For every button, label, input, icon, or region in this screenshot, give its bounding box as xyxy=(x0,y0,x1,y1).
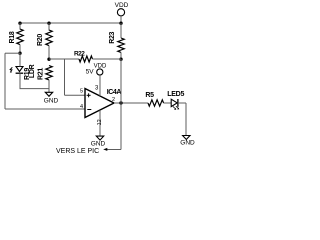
junction dot VDD rail xyxy=(119,22,122,25)
svg-text:R22: R22 xyxy=(74,51,85,58)
power net 5V VDD (op-amp supply) xyxy=(86,63,107,75)
junction dot R22/R23 node xyxy=(119,58,122,61)
wire R23 bottom stub xyxy=(120,52,122,59)
wire R5 to LED5 xyxy=(164,102,172,104)
wire R18 top stub xyxy=(19,23,21,30)
svg-text:2: 2 xyxy=(112,97,115,103)
arrow to PIC xyxy=(103,148,107,151)
svg-text:GND: GND xyxy=(91,141,106,148)
wire LED5 to corner xyxy=(178,102,186,104)
wire noninverting horizontal to op-amp xyxy=(65,94,86,96)
svg-text:5V: 5V xyxy=(86,68,95,75)
ground GND (below R21) xyxy=(44,92,59,104)
wire LDR bottom stub xyxy=(19,73,21,88)
junction dot output node xyxy=(119,101,122,104)
resistor R18 xyxy=(9,29,23,45)
svg-text:R18: R18 xyxy=(9,31,16,43)
wire noninverting tap vertical xyxy=(64,59,66,95)
junction dot R18 top xyxy=(18,22,21,25)
svg-text:4: 4 xyxy=(80,104,83,110)
resistor R21 xyxy=(37,66,52,80)
ground GND (LED) xyxy=(180,136,195,147)
wire R22 right segment xyxy=(93,58,122,60)
wire left rail vertical xyxy=(4,53,6,109)
resistor R5 xyxy=(145,92,163,106)
wire LED5 down to ground xyxy=(185,103,187,136)
svg-text:VERS LE PIC: VERS LE PIC xyxy=(56,148,99,155)
resistor R23 xyxy=(109,31,124,52)
junction dot R20/R21/R22 node xyxy=(47,58,50,61)
wire R20 bottom stub xyxy=(48,46,50,59)
wire output to PIC vertical xyxy=(120,103,122,150)
wire top supply rail xyxy=(20,22,121,24)
LED LED5 xyxy=(167,91,184,110)
wire R18 bottom stub xyxy=(19,45,21,54)
wire LDR top stub xyxy=(19,53,21,66)
photodiode R19 LDR xyxy=(10,64,36,80)
op-amp IC4A xyxy=(85,89,121,118)
wire op-amp V+ pin xyxy=(99,75,101,96)
svg-text:GND: GND xyxy=(180,140,195,147)
wire LDR bottom to R21 net xyxy=(20,88,50,90)
svg-text:5: 5 xyxy=(80,89,83,95)
resistor R22 xyxy=(74,51,93,62)
wire left rail to inverting input xyxy=(5,108,85,110)
junction dot R20 top xyxy=(47,22,50,25)
svg-text:VDD: VDD xyxy=(115,2,129,9)
power net VDD (top) xyxy=(115,2,129,16)
wire R20 top stub xyxy=(48,23,50,31)
wire op-amp V- pin xyxy=(99,110,101,136)
svg-text:R20: R20 xyxy=(37,34,44,46)
wire R23 top stub xyxy=(120,23,122,38)
ground GND (op-amp V-) xyxy=(91,136,106,147)
svg-text:R21: R21 xyxy=(37,68,44,80)
svg-text:R23: R23 xyxy=(109,31,116,43)
svg-text:GND: GND xyxy=(44,98,59,105)
wire R22 left segment xyxy=(49,58,79,60)
junction dot R18/LDR node xyxy=(18,52,21,55)
svg-text:LDR: LDR xyxy=(29,64,36,78)
svg-text:IC4A: IC4A xyxy=(107,89,122,96)
wire output pull-up vertical xyxy=(120,59,122,103)
wire output to PIC horizontal xyxy=(106,149,121,151)
svg-text:R5: R5 xyxy=(145,92,154,99)
wire VDD circle to top rail xyxy=(120,16,122,23)
wire op-amp output xyxy=(114,102,148,104)
resistor R20 xyxy=(37,30,52,46)
svg-text:LED5: LED5 xyxy=(167,91,184,98)
wire left rail horizontal top xyxy=(5,52,20,54)
wire R21 bottom stub xyxy=(48,80,50,92)
